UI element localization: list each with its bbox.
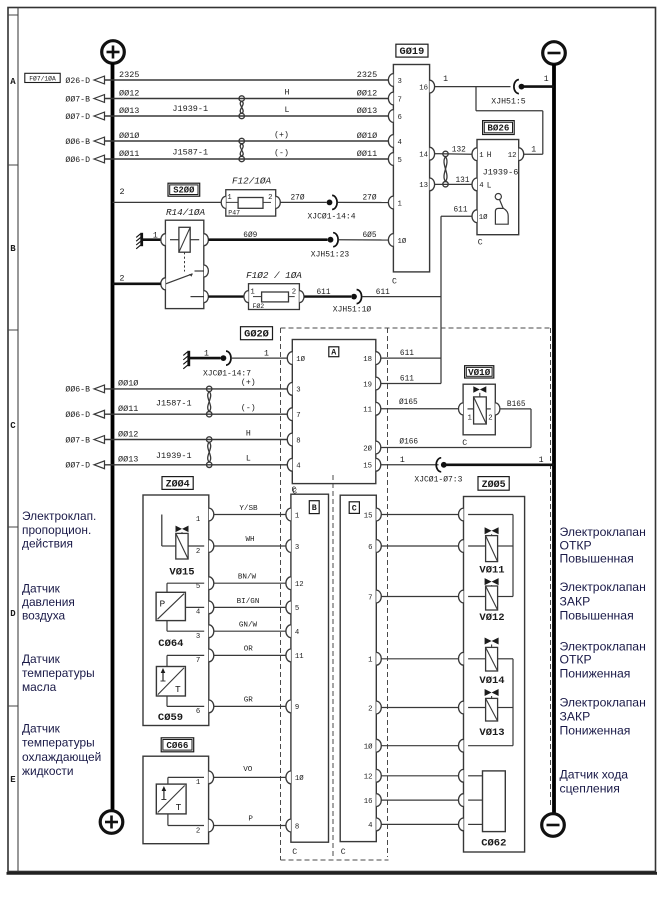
wire GN/W Z004/C066 to column B: [214, 622, 287, 632]
svg-text:15: 15: [363, 463, 372, 471]
svg-text:ØØ13: ØØ13: [357, 106, 377, 116]
svg-text:C: C: [462, 439, 467, 448]
left margin text: sensor C064 description: [22, 581, 75, 622]
svg-text:P: P: [160, 599, 166, 610]
svg-text:4: 4: [295, 629, 300, 637]
G019 left pin 6: [388, 110, 401, 123]
V010 coil: [468, 397, 491, 424]
svg-text:BØ26: BØ26: [487, 123, 509, 134]
wire 132 G019 pin14 to B026 pin1 H: [435, 147, 472, 155]
svg-text:CØ64: CØ64: [158, 638, 183, 650]
svg-text:B: B: [10, 244, 16, 254]
svg-text:Ø165: Ø165: [399, 398, 418, 407]
column B pin 1Ø: [286, 771, 304, 784]
wire XJC01-07:3 to minus bus: [444, 456, 554, 465]
svg-text:H: H: [285, 88, 290, 97]
svg-text:2: 2: [120, 187, 125, 197]
G020-A right pin 15: [363, 458, 381, 471]
wire XJH51:5 to minus bus: [522, 75, 555, 86]
svg-text:XJCØ1-Ø7:3: XJCØ1-Ø7:3: [414, 475, 462, 484]
svg-text:1: 1: [196, 516, 201, 524]
svg-text:Y/SB: Y/SB: [239, 505, 258, 513]
G020-A left pin 4: [287, 458, 301, 471]
svg-text:6: 6: [398, 114, 402, 122]
wire 611 B026 pin10 to vertical: [441, 206, 472, 216]
svg-text:9: 9: [295, 704, 299, 712]
svg-text:1: 1: [196, 779, 201, 787]
svg-text:WH: WH: [245, 536, 254, 544]
right margin text: valve V014 description: [560, 640, 646, 681]
svg-text:ZØØ4: ZØØ4: [166, 478, 190, 490]
wire 1 to G020 pin10: [232, 349, 288, 358]
wire row ØØ13 to G019 (ØØ7-D): [65, 106, 388, 122]
connector B marker: [309, 501, 319, 514]
off-page fuse ref F07/10A: [25, 73, 60, 82]
svg-text:BN/W: BN/W: [238, 574, 257, 582]
svg-text:GR: GR: [244, 697, 254, 705]
svg-text:J1587-1: J1587-1: [172, 147, 208, 157]
svg-text:L: L: [285, 106, 290, 115]
svg-text:1: 1: [544, 75, 549, 84]
svg-text:ØØ1Ø: ØØ1Ø: [357, 131, 377, 141]
column B case label C: [292, 848, 297, 857]
svg-text:температуры: температуры: [22, 666, 95, 680]
svg-text:VØ11: VØ11: [479, 564, 504, 576]
svg-text:Электроклапан: Электроклапан: [560, 640, 646, 654]
connector C marker: [349, 502, 359, 514]
Z005 label: [478, 477, 509, 491]
svg-text:ØØ7-D: ØØ7-D: [65, 112, 90, 122]
svg-text:пропорцион.: пропорцион.: [22, 523, 91, 537]
column B pin 1: [286, 508, 300, 521]
svg-text:16: 16: [364, 798, 373, 806]
svg-text:2325: 2325: [357, 70, 377, 80]
svg-text:CØ66: CØ66: [166, 740, 188, 751]
Z004 label: [162, 477, 193, 491]
svg-text:C: C: [341, 848, 346, 857]
label J1939-1 (top): [172, 104, 208, 114]
svg-text:L: L: [487, 182, 492, 190]
svg-text:1: 1: [264, 349, 269, 358]
G019 case label C: [392, 278, 397, 287]
G020 case label C (column B top): [292, 486, 297, 495]
svg-text:VO: VO: [243, 766, 253, 774]
battery minus terminal bottom: [542, 814, 565, 837]
wire ground to relay coil: [143, 231, 161, 240]
wire column C to Z005: [381, 514, 459, 516]
wire column C to Z005: [381, 545, 459, 547]
svg-text:(-): (-): [274, 148, 289, 158]
svg-text:FØ2: FØ2: [253, 302, 265, 310]
svg-text:(+): (+): [241, 378, 256, 388]
svg-text:ZØØ5: ZØØ5: [482, 479, 506, 491]
wire row ØØ11 to G020 (ØØ6-D): [65, 403, 287, 420]
svg-text:A: A: [10, 77, 16, 87]
coolant temperature sensor element: [156, 777, 204, 825]
svg-text:ØØ13: ØØ13: [118, 455, 138, 465]
ground (G020 pin10 feed): [183, 351, 189, 369]
label J1587-1 (mid): [156, 398, 192, 408]
svg-text:Датчик: Датчик: [22, 652, 61, 666]
fuse F12/10A: [221, 176, 281, 217]
svg-text:ØØ6-D: ØØ6-D: [65, 410, 90, 420]
svg-text:(+): (+): [274, 130, 289, 140]
svg-text:Электроклапан: Электроклапан: [560, 525, 646, 539]
G020-A left pin 8: [287, 433, 300, 446]
G020-A left pin 7: [287, 408, 300, 421]
relay R14 actuator link: [184, 252, 186, 271]
svg-text:D: D: [10, 609, 16, 619]
B026 pin 1 (H): [472, 148, 492, 161]
wire column C to Z005: [381, 799, 459, 801]
svg-text:(-): (-): [241, 403, 256, 413]
wire column C to Z005: [381, 707, 459, 709]
twisted pair symbol (J1939-6): [443, 151, 448, 187]
wire row ØØ12 to G019 (ØØ7-B): [65, 88, 388, 104]
svg-text:3: 3: [295, 544, 299, 552]
wire 611 to vertical 611 bus: [363, 289, 442, 297]
proportional solenoid valve V015: [162, 515, 204, 579]
G019 left pin 5: [388, 153, 401, 166]
svg-text:GØ2Ø: GØ2Ø: [244, 329, 269, 341]
svg-text:2: 2: [268, 194, 272, 202]
svg-text:3: 3: [296, 387, 300, 395]
column C pin 12: [364, 769, 382, 782]
svg-text:VØ1Ø: VØ1Ø: [468, 367, 491, 378]
pressure sensor C064: [156, 583, 204, 650]
svg-text:Датчик: Датчик: [22, 721, 61, 735]
wire ground to XJC01-14:7: [190, 349, 221, 358]
V010 label: [465, 366, 494, 378]
relay R14/10A body: [161, 207, 209, 309]
svg-text:температуры: температуры: [22, 735, 95, 749]
column C pin 2: [368, 701, 381, 714]
svg-text:F1Ø2 / 1ØA: F1Ø2 / 1ØA: [246, 270, 302, 281]
svg-text:1Ø: 1Ø: [479, 213, 488, 222]
svg-text:1: 1: [531, 146, 536, 155]
G019 left pin 4: [388, 135, 402, 148]
wire 611 fuse F102 to XJH51:10: [304, 289, 351, 297]
relay R14 contact: [166, 271, 204, 297]
svg-text:P47: P47: [228, 210, 240, 217]
svg-text:ØØ7-B: ØØ7-B: [65, 94, 90, 104]
sensor connector C066 body: [143, 756, 214, 844]
svg-text:1: 1: [153, 231, 158, 240]
svg-text:1: 1: [398, 200, 403, 208]
svg-text:1: 1: [400, 456, 405, 465]
ground (relay coil): [136, 233, 142, 249]
svg-text:131: 131: [456, 177, 470, 185]
svg-text:CØ59: CØ59: [158, 712, 183, 724]
svg-text:J1939-6: J1939-6: [483, 167, 519, 177]
connector column C body: [340, 495, 376, 841]
diagnostic socket B026 body: [477, 140, 519, 235]
wire BN/W Z004/C066 to column B: [214, 574, 287, 584]
wire 270 fuse F12 to XJC01-14:4: [281, 193, 327, 202]
B026 pin 12: [508, 148, 524, 161]
ruler section letter D: [10, 609, 16, 619]
right margin text: sensor C062 description: [560, 767, 629, 795]
column C pin 15: [364, 508, 382, 521]
svg-text:6: 6: [368, 544, 372, 552]
wire BI/GN Z004/C066 to column B: [214, 598, 287, 608]
svg-text:5: 5: [398, 157, 402, 165]
svg-text:8: 8: [295, 823, 299, 831]
B026 pin 4 (L): [472, 178, 492, 191]
C066 pin numbers: [196, 779, 201, 835]
wire branch to B026 pin12: [476, 87, 543, 155]
ruler section letter C: [10, 421, 16, 431]
svg-text:1Ø: 1Ø: [295, 774, 304, 783]
svg-text:Датчик: Датчик: [22, 581, 61, 595]
plus bus wire: [111, 63, 115, 810]
svg-text:12: 12: [295, 581, 304, 589]
battery minus terminal top: [543, 42, 566, 65]
V010 pin numbers: [468, 415, 493, 423]
svg-text:2325: 2325: [119, 70, 139, 80]
column C pin 1: [368, 652, 381, 665]
clutch travel sensor C062: [468, 771, 506, 849]
svg-text:ØØ1Ø: ØØ1Ø: [118, 379, 138, 389]
wire relay contact to fuse F102: [208, 295, 243, 297]
twisted pair symbol (J1939-1 mid): [207, 437, 212, 468]
wire row ØØ11 to G019 (ØØ6-D): [65, 148, 388, 165]
Z004 pin 3: [196, 633, 200, 641]
svg-text:7: 7: [296, 412, 300, 420]
svg-text:CØ62: CØ62: [481, 837, 506, 849]
svg-text:1: 1: [479, 152, 484, 160]
svg-text:12: 12: [508, 152, 517, 160]
svg-text:1Ø: 1Ø: [398, 237, 407, 246]
connector XJH51:5: [491, 80, 525, 107]
svg-text:ØØ13: ØØ13: [119, 106, 139, 116]
wire 611 G020 pin19: [381, 376, 441, 384]
svg-text:ØØ11: ØØ11: [357, 149, 377, 159]
ruler section letter A: [10, 77, 16, 87]
svg-text:GN/W: GN/W: [239, 622, 258, 630]
ECU block G019 body: [393, 65, 429, 272]
wire WH Z004/C066 to column B: [214, 536, 287, 546]
svg-text:16: 16: [419, 84, 428, 92]
svg-text:611: 611: [400, 350, 414, 358]
svg-text:27Ø: 27Ø: [290, 193, 304, 202]
svg-text:1: 1: [227, 194, 232, 202]
svg-text:ØØ6-B: ØØ6-B: [65, 137, 90, 147]
solenoid valve V013 (close low): [468, 689, 513, 739]
left margin text: sensor C059 description: [22, 652, 95, 694]
G020-A case label C: [292, 488, 297, 497]
svg-text:611: 611: [376, 289, 390, 297]
wire row ØØ13 to G020 (ØØ7-D): [65, 455, 287, 471]
svg-text:масла: масла: [22, 680, 57, 694]
svg-text:Повышенная: Повышенная: [560, 608, 634, 622]
B026 label J1939-6: [483, 167, 519, 177]
svg-text:L: L: [246, 455, 251, 464]
connector XJC01-14:4: [307, 195, 355, 221]
wire 609 relay coil to XJH51:23: [208, 231, 327, 240]
svg-text:7: 7: [398, 96, 402, 104]
column C pin 1Ø: [364, 739, 382, 752]
svg-text:ØØ12: ØØ12: [357, 88, 377, 98]
harness connector Z004 body: [143, 495, 214, 726]
G019 left pin 3: [388, 74, 401, 87]
connector XJC01-14:7: [203, 351, 251, 378]
connector column B body: [291, 494, 329, 842]
svg-text:4: 4: [368, 822, 373, 830]
svg-text:VØ12: VØ12: [479, 612, 504, 624]
svg-text:C: C: [352, 504, 357, 513]
svg-text:27Ø: 27Ø: [362, 194, 376, 203]
wire 605 to G019 pin10: [339, 231, 389, 240]
svg-text:5: 5: [196, 583, 200, 591]
svg-text:1Ø: 1Ø: [364, 743, 373, 752]
svg-text:12: 12: [364, 774, 373, 782]
wire row ØØ12 to G020 (ØØ7-B): [65, 429, 287, 445]
svg-text:XJCØ1-14:7: XJCØ1-14:7: [203, 369, 251, 378]
svg-text:3: 3: [196, 633, 200, 641]
G019 right pin 14: [419, 147, 434, 160]
Z004 pin 5: [196, 583, 200, 591]
svg-text:1: 1: [443, 75, 448, 84]
G019 right pin 16: [419, 80, 434, 93]
wire column C to Z005: [381, 658, 459, 660]
wire column C to Z005: [381, 596, 459, 598]
svg-text:воздуха: воздуха: [22, 608, 66, 622]
G020-A right pin 18: [363, 352, 381, 365]
wire row ØØ1Ø to G020 (ØØ6-B): [65, 378, 287, 395]
svg-text:Электроклапан: Электроклапан: [560, 580, 646, 594]
wire 0166 G020 pin20 to V010 loop: [381, 401, 531, 448]
battery plus terminal top: [102, 41, 125, 64]
label J1939-1 (mid): [156, 451, 192, 461]
ruler section letter E: [10, 775, 16, 785]
svg-text:C: C: [478, 239, 483, 248]
column C pin 16: [364, 794, 382, 807]
svg-text:A: A: [331, 349, 336, 358]
svg-text:VØ15: VØ15: [169, 567, 194, 579]
svg-text:охлаждающей: охлаждающей: [22, 750, 101, 764]
svg-text:6Ø5: 6Ø5: [362, 231, 376, 240]
battery plus terminal bottom: [100, 811, 123, 834]
oil temperature sensor C059: [156, 655, 204, 724]
svg-text:ОТКР: ОТКР: [560, 538, 592, 552]
svg-text:T: T: [175, 684, 181, 695]
wire VO Z004/C066 to column B: [214, 766, 287, 777]
svg-text:C: C: [392, 278, 397, 287]
svg-text:ØØ12: ØØ12: [118, 429, 138, 439]
G019 right pin 13: [419, 178, 434, 191]
svg-text:S2ØØ: S2ØØ: [173, 186, 195, 196]
wire P Z004/C066 to column B: [214, 816, 287, 826]
left margin text: valve V015 description: [22, 509, 96, 550]
harness connector Z005 body: [458, 497, 524, 853]
svg-text:ØØ7-D: ØØ7-D: [65, 461, 90, 471]
Z004 pin 6: [196, 708, 200, 716]
svg-text:4: 4: [196, 609, 201, 617]
svg-text:2: 2: [119, 274, 124, 284]
wire 0165 G020 pin11 to V010: [381, 398, 459, 409]
svg-text:Повышенная: Повышенная: [560, 552, 634, 566]
svg-text:132: 132: [452, 147, 466, 155]
wire 131 G019 pin13 to B026 pin4 L: [435, 177, 472, 185]
svg-text:ЗАКР: ЗАКР: [560, 709, 591, 723]
svg-text:611: 611: [400, 376, 414, 384]
wire G020 pin15 to XJC01-07:3: [381, 456, 439, 465]
wire 611 vertical bus: [440, 216, 442, 383]
Z004 pin 4: [196, 609, 201, 617]
B026 diagnostic tool icon: [495, 194, 508, 225]
wire column C to Z005: [381, 775, 459, 777]
column B pin 9: [286, 700, 299, 713]
svg-text:14: 14: [419, 152, 428, 160]
column B pin 3: [286, 540, 299, 553]
V010 case label C: [462, 439, 467, 448]
wire row ØØ1Ø to G019 (ØØ6-B): [65, 130, 388, 147]
svg-text:VØ14: VØ14: [479, 675, 504, 687]
G020-A right pin 19: [363, 377, 381, 390]
svg-text:2: 2: [292, 288, 296, 296]
connector XJH51:23: [311, 233, 350, 260]
G020 connector A marker: [329, 347, 339, 358]
svg-text:6Ø9: 6Ø9: [243, 231, 257, 240]
svg-text:F12/1ØA: F12/1ØA: [232, 176, 271, 187]
G020-A left pin 3: [287, 383, 300, 396]
svg-text:H: H: [246, 429, 251, 438]
svg-text:11: 11: [295, 653, 304, 661]
solenoid valve V012 (close high): [468, 578, 513, 624]
Z004 pin 1: [196, 516, 201, 524]
S200 switch box label: [168, 183, 200, 196]
svg-text:7: 7: [196, 657, 200, 665]
svg-text:ØØ12: ØØ12: [119, 88, 139, 98]
svg-text:J1587-1: J1587-1: [156, 398, 192, 408]
label J1587-1 (top): [172, 147, 208, 157]
svg-text:действия: действия: [22, 536, 73, 550]
svg-text:C: C: [292, 848, 297, 857]
svg-text:C: C: [10, 421, 16, 431]
G019 left pin 1Ø: [388, 234, 406, 247]
svg-text:Электроклапан: Электроклапан: [560, 696, 646, 710]
harness boundary dashed box: [281, 328, 551, 860]
svg-text:Пониженная: Пониженная: [560, 723, 631, 737]
G020-A left pin 1Ø: [287, 352, 305, 365]
svg-text:ØØ7-B: ØØ7-B: [65, 435, 90, 445]
svg-text:XJCØ1-14:4: XJCØ1-14:4: [307, 213, 355, 222]
wire OR Z004/C066 to column B: [214, 646, 287, 656]
wire GR Z004/C066 to column B: [214, 697, 287, 707]
svg-text:4: 4: [479, 182, 484, 190]
svg-text:611: 611: [316, 289, 330, 297]
svg-text:VØ13: VØ13: [479, 727, 504, 739]
svg-text:2: 2: [368, 705, 372, 713]
column C case label C: [341, 848, 346, 857]
wire row 2325 to G019 (Ø26-D): [65, 70, 388, 86]
svg-text:GØ19: GØ19: [400, 46, 425, 58]
svg-text:Ø166: Ø166: [399, 437, 418, 446]
G020-A right pin 2Ø: [363, 441, 381, 454]
ECU block G020 connector A body: [292, 340, 376, 484]
svg-text:2Ø: 2Ø: [363, 444, 372, 453]
svg-text:ОТКР: ОТКР: [560, 653, 592, 667]
svg-text:XJH51:5: XJH51:5: [491, 97, 525, 106]
svg-text:OR: OR: [244, 646, 254, 654]
twisted pair symbol (J1587-1 mid): [207, 386, 212, 417]
svg-text:7: 7: [368, 594, 372, 602]
connector XJH51:10: [333, 290, 372, 315]
svg-text:ØØ6-B: ØØ6-B: [65, 385, 90, 395]
left margin text: sensor C066 description: [22, 721, 101, 778]
svg-text:2: 2: [488, 415, 492, 423]
